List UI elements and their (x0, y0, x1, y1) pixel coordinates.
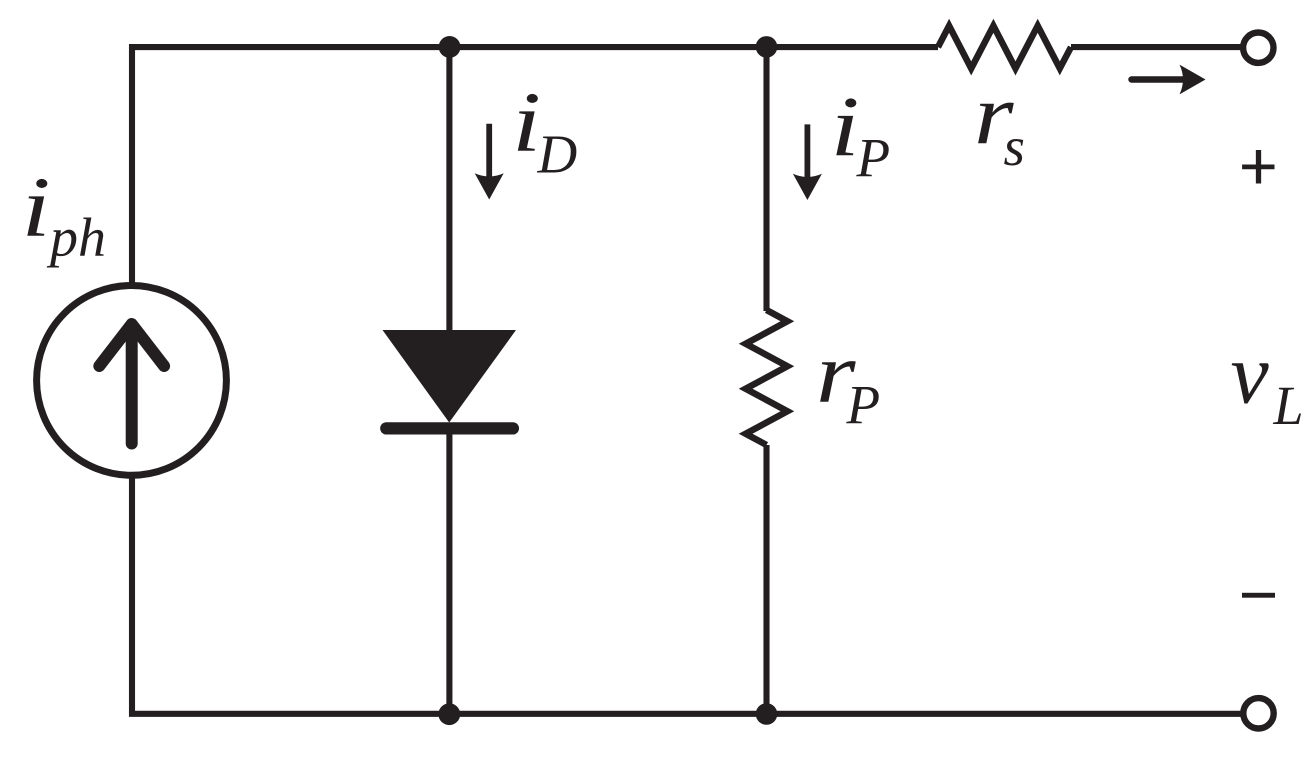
svg-text:v: v (1231, 325, 1270, 421)
current source i_ph (37, 286, 227, 476)
wire diode branch bottom (446, 428, 452, 714)
svg-text:s: s (1004, 116, 1025, 177)
label minus (1242, 593, 1275, 598)
arrow iP (793, 124, 822, 200)
wire rP branch top (763, 47, 769, 311)
svg-text:P: P (856, 127, 891, 188)
diode D1 (383, 330, 517, 428)
svg-text:i: i (22, 159, 51, 255)
wire left branch bottom and bottom rail (132, 474, 1243, 714)
wire rs to + terminal (1071, 44, 1243, 50)
terminal top right (1243, 33, 1273, 63)
wire top rail (node iph to rs) and left branch top (132, 47, 938, 286)
node B top rP junction (756, 36, 778, 58)
resistor r_P (746, 310, 788, 445)
label plus (1242, 150, 1274, 184)
current direction arrow (load current) (1132, 65, 1206, 95)
node C bottom diode junction (438, 703, 460, 725)
node D bottom rP junction (756, 703, 778, 725)
svg-text:P: P (846, 374, 881, 435)
wire diode branch top (446, 47, 452, 336)
node A top diode junction (439, 36, 461, 58)
svg-text:ph: ph (46, 207, 106, 268)
svg-text:L: L (1273, 375, 1304, 436)
arrow iD (475, 124, 504, 200)
svg-text:D: D (537, 124, 578, 185)
resistor r_s (938, 26, 1071, 69)
svg-text:i: i (831, 78, 860, 174)
terminal bottom right (1243, 698, 1273, 728)
wire rP branch bottom (763, 445, 769, 714)
